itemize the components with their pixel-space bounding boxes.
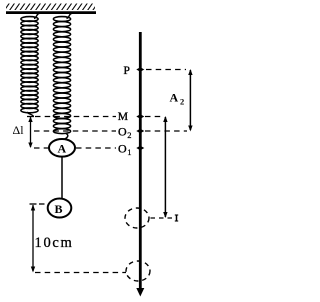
mass A <box>49 139 75 157</box>
svg-text:O: O <box>118 125 127 139</box>
ceiling hatch <box>6 4 95 11</box>
spring S1 bottom hook <box>27 112 34 117</box>
svg-text:B: B <box>55 202 63 216</box>
svg-text:10cm: 10cm <box>35 235 74 251</box>
dashed O2 level line <box>34 130 116 132</box>
svg-text:1: 1 <box>127 147 131 157</box>
mass B <box>48 199 72 218</box>
10cm arrow <box>30 203 37 205</box>
dashed O1 level line left <box>34 147 49 149</box>
A2 measure arrow <box>189 70 191 130</box>
dl arrow <box>27 117 34 148</box>
svg-text:M: M <box>118 111 128 123</box>
spring S1 (left, unloaded) <box>34 13 40 18</box>
M measure arrow down to circle <box>164 117 166 217</box>
O2 tick and label <box>136 129 144 134</box>
svg-text:Δl: Δl <box>13 123 25 137</box>
dashes right of upper circle <box>151 217 175 219</box>
ceiling bar <box>6 11 96 14</box>
svg-text:O: O <box>118 142 127 156</box>
spring S2 (right, loaded) <box>67 13 73 18</box>
upper dashed circle <box>125 208 149 228</box>
dashed O1 level line right <box>76 147 116 149</box>
svg-text:2: 2 <box>180 97 184 107</box>
main vertical line <box>139 32 142 289</box>
dashed M level line <box>35 116 116 118</box>
tick left of B <box>39 203 45 205</box>
svg-text:A: A <box>170 91 179 105</box>
O1 tick and label <box>136 146 144 151</box>
svg-text:A: A <box>58 142 67 156</box>
P dashed line <box>146 69 186 71</box>
svg-text:P: P <box>124 65 130 77</box>
P tick and label <box>136 67 144 72</box>
spring S2 bottom hook <box>65 134 68 140</box>
svg-text:2: 2 <box>127 130 131 140</box>
bottom dashed line <box>35 272 126 274</box>
lower dashed circle <box>126 261 150 281</box>
end bar <box>176 215 178 221</box>
M dashed right <box>145 116 161 118</box>
M tick and label <box>136 114 144 119</box>
rod A-B <box>61 157 63 199</box>
O2 dashed right <box>145 130 187 132</box>
